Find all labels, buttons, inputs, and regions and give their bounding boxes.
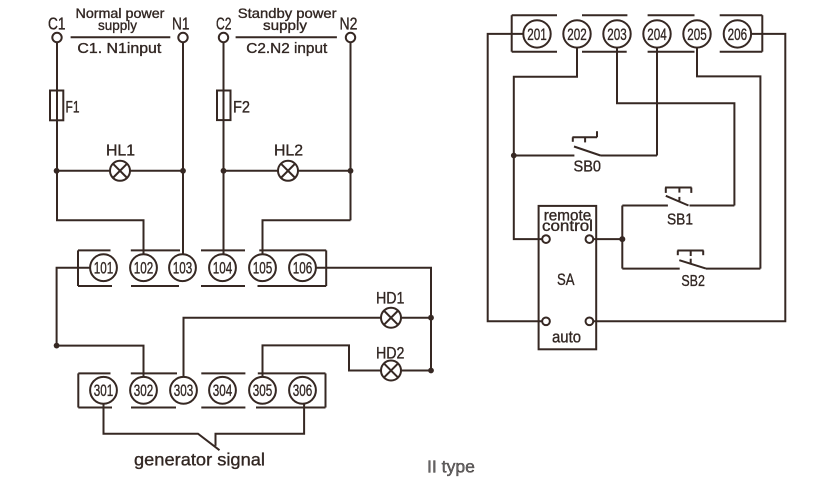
svg-text:II type: II type	[427, 456, 475, 476]
svg-text:201: 201	[527, 26, 546, 45]
svg-text:C1. N1input: C1. N1input	[77, 40, 162, 56]
terminal block row 101-106 bracket	[78, 250, 326, 286]
junction dot HD1 right	[428, 315, 434, 321]
wire terminal 202 to SB0 and SA remote	[514, 48, 577, 240]
svg-text:101: 101	[94, 260, 113, 279]
wire terminal 206 to SA bottom-right	[593, 34, 785, 321]
lamp HL1	[57, 161, 183, 181]
svg-text:F2: F2	[233, 99, 250, 117]
terminal 203	[603, 20, 630, 47]
svg-text:HL2: HL2	[274, 143, 303, 160]
terminal 104	[209, 254, 236, 281]
junction dot C2-HL2	[221, 168, 227, 174]
svg-text:205: 205	[687, 26, 706, 45]
switch SA box	[539, 206, 597, 349]
svg-text:F1: F1	[66, 99, 80, 117]
terminal 101	[90, 254, 117, 281]
svg-text:auto: auto	[552, 329, 581, 347]
terminal 105	[249, 254, 276, 281]
wire terminal 101 to terminal 302	[57, 268, 144, 377]
generator signal leader line left	[104, 404, 220, 451]
svg-text:C2.N2 input: C2.N2 input	[246, 40, 328, 57]
junction dot HD2 right	[428, 368, 434, 374]
svg-text:106: 106	[293, 260, 312, 279]
terminal block row 301-306 bracket	[78, 373, 325, 407]
svg-text:103: 103	[173, 260, 192, 279]
svg-text:204: 204	[647, 26, 666, 45]
header divider line standby supply	[236, 36, 337, 38]
terminal 303	[170, 377, 197, 404]
svg-text:306: 306	[293, 382, 312, 401]
node N1	[178, 33, 187, 42]
node C1	[52, 33, 61, 42]
terminal 201	[523, 20, 550, 47]
SA terminal auto-left	[542, 317, 550, 325]
terminal 204	[643, 20, 670, 47]
svg-text:N2: N2	[340, 14, 358, 34]
svg-text:SA: SA	[557, 270, 575, 289]
node N2	[346, 33, 355, 42]
lamp HL2	[224, 161, 352, 181]
svg-text:301: 301	[94, 382, 113, 401]
svg-text:HD2: HD2	[376, 344, 404, 362]
wire terminal 106 to HD lamps	[316, 268, 431, 371]
fuse F2	[217, 91, 231, 121]
svg-text:302: 302	[134, 382, 153, 401]
wire terminal 303 to lamp HD1	[184, 318, 382, 377]
svg-text:102: 102	[134, 260, 153, 279]
terminal 205	[683, 20, 710, 47]
svg-text:SB0: SB0	[574, 158, 601, 176]
terminal 302	[130, 377, 157, 404]
header divider line normal supply	[71, 36, 171, 38]
svg-text:N1: N1	[172, 15, 190, 34]
junction dot corner of 101-302 wire	[54, 343, 60, 349]
svg-text:HD1: HD1	[376, 290, 404, 308]
wire SB1-SB2 branch vertical	[621, 206, 623, 269]
svg-text:104: 104	[213, 260, 232, 279]
svg-text:HL1: HL1	[106, 143, 135, 160]
terminal 306	[289, 377, 316, 404]
wire terminal 203 to SB1 right	[617, 48, 734, 206]
wire C1 to fuse F1 down to HL1 junction	[56, 43, 58, 171]
svg-text:SB2: SB2	[681, 272, 705, 290]
terminal 304	[209, 377, 236, 404]
wire N1 down to terminal 103	[182, 43, 184, 255]
lamp HD1	[381, 308, 431, 328]
wire terminal 305 to lamp HD2	[263, 345, 382, 377]
pushbutton SB2	[622, 251, 760, 269]
svg-text:304: 304	[213, 382, 232, 401]
wire C2 through fuse F2 down to terminal 104	[223, 43, 225, 255]
terminal block row 201-206 bracket	[512, 15, 763, 52]
terminal 102	[130, 254, 157, 281]
SA terminal remote-right	[586, 235, 594, 243]
wire terminal 205 to SB2 right	[697, 48, 760, 269]
terminal 103	[169, 254, 196, 281]
svg-text:305: 305	[253, 382, 272, 401]
svg-text:C1: C1	[48, 15, 66, 34]
svg-text:control: control	[542, 217, 593, 234]
junction dot SB0 left	[511, 153, 517, 159]
generator signal leader line right	[216, 404, 305, 446]
terminal 206	[724, 20, 751, 47]
junction dot SA branch	[619, 236, 625, 242]
svg-text:206: 206	[728, 26, 747, 45]
svg-text:203: 203	[607, 26, 626, 45]
junction dot C1-HL1	[54, 168, 60, 174]
wire C1 branch to terminal 102	[57, 171, 144, 255]
terminal 106	[289, 254, 316, 281]
wire terminal 204 to SB0 right	[656, 48, 658, 156]
node C2	[219, 33, 228, 42]
wire terminal 201 to SA bottom-left	[488, 34, 543, 321]
svg-text:105: 105	[253, 260, 272, 279]
terminal 301	[90, 377, 117, 404]
SA terminal auto-right	[586, 317, 594, 325]
svg-text:supply: supply	[98, 18, 137, 33]
terminal 202	[563, 20, 590, 47]
junction dot N1-HL1	[180, 168, 186, 174]
lamp HD2	[381, 361, 431, 381]
fuse F1	[50, 91, 63, 121]
wire N2 branch to terminal 105	[263, 220, 351, 254]
svg-text:generator signal: generator signal	[134, 450, 265, 470]
wire SA remote terminal to branch	[593, 238, 622, 240]
svg-text:supply: supply	[263, 19, 308, 34]
wire N2 down	[350, 43, 352, 221]
SA terminal remote-left	[542, 235, 550, 243]
svg-text:202: 202	[567, 26, 586, 45]
svg-text:C2: C2	[216, 14, 231, 34]
junction dot N2-HL2	[348, 168, 354, 174]
svg-text:303: 303	[174, 382, 193, 401]
pushbutton SB0	[514, 131, 657, 155]
terminal 305	[249, 377, 276, 404]
svg-text:SB1: SB1	[667, 212, 693, 229]
pushbutton SB1	[622, 188, 734, 206]
